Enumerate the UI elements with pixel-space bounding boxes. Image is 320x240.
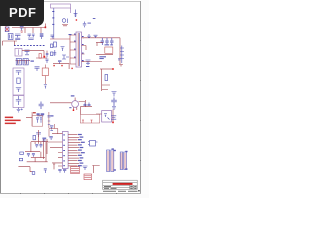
header J2 bbox=[120, 152, 126, 170]
connector CN1 bbox=[62, 132, 68, 169]
label VCC2 bbox=[99, 58, 103, 59]
capacitor CX1 bbox=[83, 22, 86, 28]
capacitor C15 bbox=[111, 98, 117, 107]
earth E1 bbox=[74, 10, 78, 17]
note text line 3 bbox=[5, 123, 16, 125]
ground bbox=[112, 107, 116, 109]
wire bbox=[18, 167, 33, 172]
capacitor C21 bbox=[63, 169, 66, 172]
capacitor C29 bbox=[43, 140, 46, 141]
resistor R7 bbox=[105, 75, 108, 81]
transistor Q2 bbox=[37, 113, 45, 116]
diode D5 bbox=[112, 92, 117, 97]
capacitor C4 bbox=[40, 35, 44, 39]
wire bbox=[26, 112, 32, 126]
label R3 bbox=[31, 61, 34, 62]
title text bbox=[113, 183, 133, 185]
diode D2 bbox=[53, 50, 56, 56]
resistor R20 bbox=[51, 44, 53, 48]
wire bbox=[50, 103, 77, 110]
label D7 bbox=[86, 66, 89, 67]
label R22 bbox=[51, 115, 54, 116]
resistor R1 bbox=[39, 54, 41, 59]
capacitor C7 bbox=[61, 47, 65, 52]
wire bbox=[44, 65, 46, 85]
capacitor C9 bbox=[105, 38, 108, 45]
label VR1 bbox=[33, 112, 36, 113]
page chrome: edges bbox=[0, 0, 149, 198]
title block bbox=[103, 180, 138, 189]
node E bbox=[73, 110, 75, 112]
wire bbox=[62, 25, 68, 26]
wire secondary rail bbox=[83, 37, 120, 39]
capacitor C8 bbox=[101, 38, 104, 45]
jumper block JP2 bbox=[84, 174, 92, 180]
resistor R9 bbox=[88, 103, 91, 106]
zener ZD2 bbox=[111, 116, 116, 119]
capacitor CY1 bbox=[20, 27, 24, 33]
pin labels CN1 bbox=[78, 134, 85, 166]
pin 2 bbox=[52, 17, 54, 18]
capacitor C22 bbox=[36, 133, 41, 138]
capacitor C25 bbox=[51, 35, 55, 39]
fuse F1 bbox=[5, 25, 9, 32]
node C bbox=[43, 56, 45, 58]
wire bbox=[96, 54, 113, 56]
snubber R4 bbox=[54, 42, 57, 47]
MOSFET Q3 bbox=[62, 55, 69, 59]
resistor R14 bbox=[19, 158, 22, 160]
J1 end caps bbox=[113, 150, 127, 171]
resistor R6 bbox=[17, 78, 20, 83]
capacitor C14 bbox=[35, 67, 40, 71]
resistor R3 bbox=[23, 59, 28, 65]
wire bbox=[53, 164, 100, 173]
capacitor C23 bbox=[46, 59, 49, 63]
shield dashed bbox=[14, 45, 46, 47]
wire bbox=[12, 28, 45, 34]
node A bbox=[76, 19, 77, 20]
diode D9 bbox=[44, 85, 47, 89]
resistor R11 bbox=[20, 152, 24, 154]
capacitor C19 bbox=[44, 169, 47, 173]
thermistor TH1 bbox=[42, 68, 48, 76]
pin 1 bbox=[52, 11, 54, 12]
capacitor C24 bbox=[50, 126, 53, 131]
wire bbox=[96, 38, 120, 64]
wire bbox=[48, 134, 62, 166]
node H bbox=[61, 65, 62, 66]
primary chain box lower bbox=[13, 96, 24, 108]
wire bbox=[50, 38, 70, 40]
capacitor C11 bbox=[118, 59, 121, 60]
wire bbox=[53, 64, 69, 69]
wire bbox=[80, 100, 92, 114]
wire bbox=[16, 61, 31, 65]
label C4 bbox=[40, 33, 44, 34]
capacitor C17 bbox=[35, 145, 38, 148]
capacitor C27 bbox=[27, 154, 30, 157]
node F bbox=[112, 122, 114, 124]
wire bbox=[75, 98, 85, 102]
pin wires CN1 bbox=[68, 135, 80, 166]
node G bbox=[53, 65, 54, 66]
label +V bbox=[21, 108, 23, 110]
IC U4 bbox=[88, 141, 98, 147]
label pin bbox=[69, 107, 71, 108]
pin 3 bbox=[52, 24, 54, 25]
wire T1 secondary leads bbox=[82, 38, 87, 62]
capacitor C12 bbox=[16, 71, 21, 76]
diode D4 bbox=[16, 88, 21, 93]
capacitor C6 bbox=[46, 53, 49, 57]
capacitor C16 bbox=[39, 102, 44, 110]
diode D6 bbox=[83, 166, 88, 170]
wire bbox=[3, 41, 18, 46]
wire bbox=[49, 124, 58, 137]
resistor R21 bbox=[51, 52, 53, 56]
primary chain box bbox=[13, 68, 24, 95]
capacitor CX2 bbox=[15, 34, 21, 40]
label T1 pin bbox=[69, 34, 72, 35]
inductor L2 bbox=[15, 48, 22, 56]
rectifier D7 bbox=[86, 60, 91, 65]
node I bbox=[71, 68, 72, 69]
ground bbox=[17, 108, 21, 112]
resistor R10 bbox=[33, 135, 36, 139]
inductor L3 bbox=[8, 34, 13, 40]
capacitor C13 bbox=[16, 96, 21, 105]
capacitor C18 bbox=[39, 145, 42, 148]
label U3b bbox=[110, 44, 113, 45]
wire bbox=[44, 24, 46, 28]
label U3 bbox=[105, 44, 110, 45]
node D bbox=[112, 68, 114, 70]
label CX1 bbox=[88, 23, 91, 24]
PDF badge bbox=[0, 0, 44, 26]
label J1 bbox=[112, 148, 114, 149]
optocoupler U2 bbox=[102, 111, 112, 123]
regulator box bbox=[32, 116, 43, 127]
heatsink outline bbox=[80, 114, 99, 123]
capacitor C26 bbox=[58, 61, 62, 65]
capacitor CX3 bbox=[28, 34, 35, 39]
wire bbox=[70, 35, 76, 64]
diode D3 bbox=[94, 35, 98, 38]
resistor R2 bbox=[16, 59, 21, 65]
transformer T1 bbox=[76, 32, 82, 67]
node B bbox=[45, 26, 47, 28]
wire bbox=[53, 8, 55, 39]
resistor R16 bbox=[32, 172, 35, 175]
capacitor C20 bbox=[58, 169, 61, 172]
wire bbox=[22, 51, 47, 58]
jumper block JP1 bbox=[71, 167, 80, 174]
note text line 2 bbox=[5, 120, 21, 122]
capacitor C10 bbox=[110, 38, 113, 45]
T1 pin marks bbox=[74, 34, 84, 61]
zener ZD3 bbox=[48, 116, 51, 125]
wire bbox=[39, 130, 47, 159]
note text line 1 bbox=[5, 117, 13, 119]
EMI filter L1 bbox=[51, 4, 71, 8]
wire bbox=[102, 69, 110, 91]
diode D8 bbox=[87, 34, 90, 37]
CN1 pin numbers bbox=[63, 134, 65, 166]
varistor RV1 bbox=[62, 19, 67, 24]
label VCC bbox=[99, 56, 106, 57]
transistor Q1 bbox=[72, 101, 79, 108]
wire bbox=[82, 62, 123, 67]
label Q1 bbox=[71, 95, 75, 96]
label N1 bbox=[93, 18, 96, 19]
wire bbox=[70, 8, 72, 13]
capacitor C30 bbox=[49, 137, 52, 140]
label CN1 bbox=[42, 138, 46, 139]
doc info text bbox=[103, 186, 140, 192]
wire bbox=[48, 112, 50, 128]
zener ZD1 bbox=[120, 46, 124, 64]
header J1 bbox=[107, 150, 114, 172]
resistor R5 bbox=[105, 47, 113, 53]
capacitor C5 bbox=[25, 50, 30, 55]
wire bbox=[96, 110, 113, 123]
wire bbox=[25, 142, 48, 162]
resistor R8 bbox=[84, 103, 87, 106]
wire bbox=[100, 68, 113, 70]
wire bbox=[69, 35, 71, 64]
capacitor C28 bbox=[32, 154, 35, 157]
